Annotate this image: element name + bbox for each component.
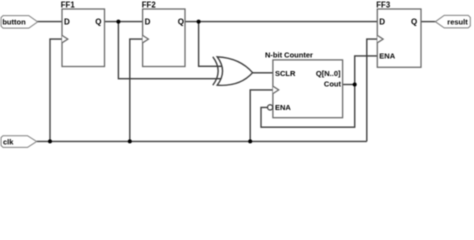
xor gate U1 bbox=[213, 57, 253, 86]
svg-text:clk: clk bbox=[3, 137, 14, 146]
clock input triangle of counter bbox=[273, 86, 279, 93]
svg-text:Q: Q bbox=[411, 17, 417, 26]
svg-text:SCLR: SCLR bbox=[275, 69, 296, 78]
svg-text:D: D bbox=[145, 17, 151, 26]
wire node to counter ENA bubble bbox=[261, 85, 355, 128]
clock input triangle of FF2 bbox=[143, 35, 149, 42]
wire node to FF3 ENA bbox=[355, 56, 378, 85]
svg-text:Q: Q bbox=[178, 17, 184, 26]
svg-text:FF1: FF1 bbox=[61, 1, 76, 10]
clock input triangle of FF3 bbox=[377, 35, 383, 42]
wire clk to FF2 clock bbox=[130, 39, 143, 141]
wire clk to FF3 clock bbox=[367, 39, 378, 141]
input port clk bbox=[1, 136, 37, 148]
wire FF2 Q to FF3 D bbox=[185, 21, 377, 23]
node junction Cout bbox=[353, 83, 357, 87]
output port result bbox=[435, 15, 470, 28]
node junction clk FF2 bbox=[128, 139, 132, 143]
wire counter Cout to node bbox=[343, 84, 355, 86]
svg-text:N-bit Counter: N-bit Counter bbox=[265, 50, 313, 59]
svg-text:FF3: FF3 bbox=[376, 1, 391, 10]
wire FF1 Q to FF2 D bbox=[105, 21, 143, 23]
wire clk to counter clock bbox=[250, 90, 273, 141]
svg-text:ENA: ENA bbox=[275, 103, 291, 112]
svg-text:Q: Q bbox=[95, 17, 101, 26]
input port button bbox=[1, 16, 38, 29]
node junction clk counter bbox=[248, 139, 252, 143]
svg-text:D: D bbox=[379, 17, 385, 26]
svg-text:Cout: Cout bbox=[324, 79, 342, 88]
node junction FF2.Q bbox=[197, 20, 201, 24]
wire node to XOR upper input bbox=[199, 22, 225, 67]
svg-text:result: result bbox=[447, 17, 468, 26]
flip-flop FF3 bbox=[376, 1, 421, 68]
flip-flop FF1 bbox=[61, 1, 105, 67]
clock input triangle of FF1 bbox=[62, 35, 68, 42]
flip-flop FF2 bbox=[142, 1, 185, 67]
node junction clk FF1 bbox=[48, 139, 52, 143]
svg-text:button: button bbox=[2, 17, 26, 26]
wire node to XOR lower input bbox=[118, 22, 225, 79]
wire clk rail bbox=[37, 140, 367, 142]
svg-text:FF2: FF2 bbox=[142, 1, 157, 10]
svg-text:Q[N..0]: Q[N..0] bbox=[316, 69, 341, 78]
N-bit Counter block bbox=[265, 50, 343, 117]
wire XOR output to counter SCLR bbox=[252, 72, 273, 74]
wire FF3 Q to result bbox=[421, 21, 435, 23]
svg-text:D: D bbox=[64, 17, 70, 26]
svg-text:ENA: ENA bbox=[379, 52, 395, 61]
inversion bubble on counter ENA bbox=[268, 105, 273, 110]
node junction FF1.Q bbox=[116, 20, 120, 24]
wire clk to FF1 clock bbox=[50, 39, 62, 141]
wire button to FF1 D bbox=[37, 21, 62, 23]
